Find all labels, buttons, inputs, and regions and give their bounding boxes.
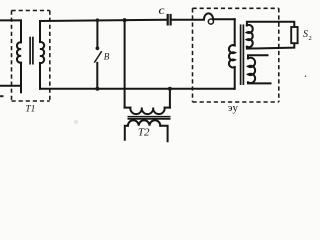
transformer T2 core	[128, 117, 171, 119]
svg-text:S: S	[303, 29, 308, 40]
wire top bus	[40, 20, 166, 21]
transformer T1 core	[30, 37, 33, 65]
svg-text:Т1: Т1	[25, 104, 35, 114]
EU transformer primary winding	[229, 19, 235, 89]
transformer T1 primary winding	[17, 20, 21, 92]
wire lower bus	[40, 88, 234, 90]
svg-text:2: 2	[309, 35, 312, 42]
switch B vertical wire upper	[96, 20, 98, 46]
EU transformer core	[241, 24, 244, 85]
node junction switch/lower bus	[95, 87, 99, 91]
EU transformer secondary lower winding	[248, 55, 271, 83]
transformer T1 secondary winding	[40, 21, 44, 89]
resistor S2	[291, 27, 297, 43]
scan artifact left edge	[0, 95, 4, 97]
scan speck	[305, 75, 307, 77]
dashed box EU	[193, 8, 279, 102]
transformer T2 secondary winding	[125, 120, 168, 141]
wire middle vertical	[124, 20, 126, 108]
switch B blade	[94, 51, 101, 62]
coupling loop (wire hop)	[204, 13, 213, 19]
svg-text:C: C	[159, 6, 165, 16]
svg-text:В: В	[104, 51, 110, 61]
node junction T2/lower bus	[168, 87, 172, 91]
dashed box T1	[12, 11, 50, 102]
svg-text:эу: эу	[228, 102, 239, 114]
node top contact	[96, 46, 100, 50]
svg-text:Т2: Т2	[138, 126, 150, 138]
wire hop to transformer	[214, 18, 235, 20]
switch B vertical wire lower	[96, 63, 98, 89]
wire top-left entry	[0, 19, 21, 21]
wire cap to hop	[172, 19, 204, 21]
node junction top bus	[123, 18, 127, 22]
transformer T2 primary winding	[125, 89, 170, 114]
capacitor C right plate	[170, 14, 172, 26]
node junction switch/top bus	[96, 18, 100, 22]
scan smudge	[74, 120, 78, 124]
EU transformer secondary upper winding	[247, 22, 294, 49]
wire bottom-left entry	[0, 85, 21, 87]
capacitor C left plate	[167, 14, 169, 26]
